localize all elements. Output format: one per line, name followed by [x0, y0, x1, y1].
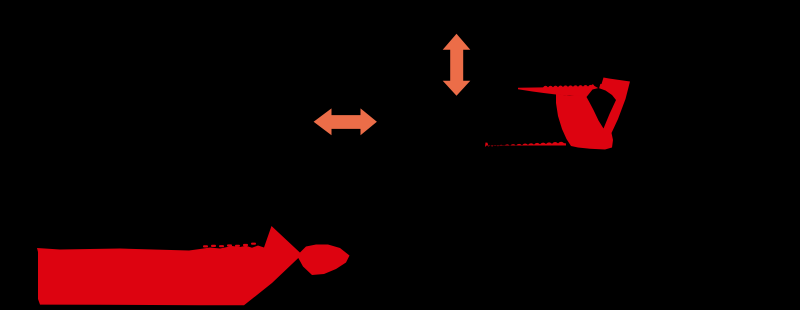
- speck dashes above arrow shaft edge: [203, 243, 256, 248]
- vertical double arrow (orange): [443, 34, 471, 96]
- big red arrow annotation (bottom-left): shaft + head: [37, 226, 302, 305]
- red blob right of arrowhead: [298, 245, 350, 276]
- red check annotation: top bar: [518, 85, 599, 97]
- horizontal double arrow (orange): [314, 108, 377, 135]
- red wavy underline (left of check): [485, 142, 566, 147]
- black dip between bar end and wedge spike: [593, 77, 603, 89]
- black notch between the two arms: [587, 88, 617, 129]
- red check annotation: main body (arms merge at bottom): [556, 78, 630, 150]
